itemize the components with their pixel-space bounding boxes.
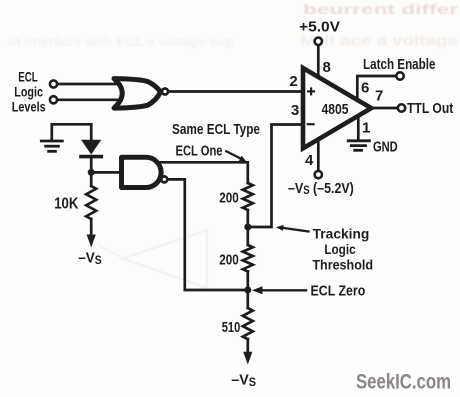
wire pin 7 output bbox=[371, 107, 398, 110]
arrow to -VS (bottom) bbox=[243, 352, 252, 365]
pointer arrow Tracking Logic Threshold bbox=[284, 228, 309, 232]
svg-text:4805: 4805 bbox=[322, 101, 349, 118]
wire ECL One (NAND true output to divider top) bbox=[158, 162, 248, 183]
svg-text:SeekIC.com: SeekIC.com bbox=[356, 371, 451, 394]
svg-text:ECL: ECL bbox=[18, 69, 38, 85]
resistor R4 510 bbox=[243, 308, 253, 339]
svg-text:510: 510 bbox=[222, 319, 241, 336]
svg-text:–VS (–5.2V): –VS (–5.2V) bbox=[288, 180, 354, 197]
svg-text:+5.0V: +5.0V bbox=[299, 20, 340, 36]
wire R3 to ECL Zero node bbox=[246, 272, 249, 309]
label Tracking Logic Threshold bbox=[312, 226, 373, 273]
wire NOR output to comparator pin 2 bbox=[169, 90, 303, 93]
input terminal IN2 bbox=[50, 96, 57, 103]
svg-text:Logic: Logic bbox=[324, 241, 355, 257]
svg-text:Tracking: Tracking bbox=[313, 226, 370, 242]
svg-text:8: 8 bbox=[323, 59, 331, 76]
svg-text:Same ECL Type: Same ECL Type bbox=[172, 122, 260, 138]
node junction (diode / 10K / gate input) bbox=[88, 169, 95, 176]
wire node to NAND input bbox=[91, 171, 120, 174]
power terminal +5.0V bbox=[315, 38, 322, 45]
ground (bias network) bbox=[41, 141, 62, 151]
svg-text:ECL One: ECL One bbox=[176, 144, 223, 160]
plus mark pin 2 bbox=[308, 89, 314, 95]
svg-text:Latch Enable: Latch Enable bbox=[363, 57, 436, 73]
node ECL Zero bbox=[244, 287, 251, 294]
svg-text:4: 4 bbox=[305, 152, 314, 169]
wire pin 3 to threshold node bbox=[251, 125, 302, 228]
svg-text:ot interface with ECL a voltag: ot interface with ECL a voltage sup bbox=[8, 34, 234, 49]
op-amp U2 4805 bbox=[303, 68, 371, 148]
wire ground to diode anode bbox=[52, 124, 91, 140]
NAND bubble bbox=[161, 176, 167, 182]
node Tracking Logic Threshold bbox=[244, 224, 251, 231]
pointer arrow ECL One bbox=[226, 151, 241, 158]
terminal -VS supply bbox=[315, 171, 322, 178]
minus mark pin 3 bbox=[308, 123, 314, 125]
wire pin 1 bbox=[357, 116, 360, 139]
resistor R2 200 bbox=[243, 183, 253, 210]
terminal TTL Out bbox=[398, 104, 405, 111]
svg-text:6: 6 bbox=[361, 80, 369, 97]
terminal Latch Enable bbox=[396, 72, 403, 79]
svg-text:1: 1 bbox=[362, 120, 370, 137]
svg-text:GND: GND bbox=[373, 139, 398, 155]
arrow to -VS bbox=[87, 235, 96, 248]
resistor R3 200 bbox=[243, 245, 253, 271]
svg-text:200: 200 bbox=[219, 253, 239, 269]
svg-text:TTL Out: TTL Out bbox=[407, 101, 453, 117]
svg-text:Threshold: Threshold bbox=[312, 257, 373, 273]
wire R2 to node bbox=[246, 210, 249, 245]
ground GND (comparator) bbox=[348, 141, 369, 151]
svg-text:10K: 10K bbox=[54, 196, 79, 213]
svg-text:7: 7 bbox=[375, 88, 383, 105]
wire pin 8 bbox=[317, 45, 320, 77]
wire bbox=[58, 83, 120, 86]
NOR gate U1 bbox=[114, 79, 161, 109]
wire R4 to -VS arrow bbox=[246, 339, 249, 354]
wire NAND inverted output to ECL Zero node bbox=[168, 179, 246, 290]
input terminal IN1 bbox=[50, 80, 57, 87]
svg-text:2: 2 bbox=[289, 73, 297, 90]
svg-text:ECL Zero: ECL Zero bbox=[311, 283, 366, 300]
label ECL Logic Levels bbox=[12, 69, 46, 115]
label -VS (-5.2V) bbox=[288, 180, 354, 197]
NAND gate U3 bbox=[122, 157, 162, 187]
wire diode cathode down bbox=[90, 158, 93, 186]
wire bbox=[58, 98, 120, 101]
NOR bubble bbox=[162, 89, 168, 95]
wire pin 4 bbox=[317, 139, 320, 171]
resistor R1 10K bbox=[86, 186, 96, 219]
svg-text:Logic: Logic bbox=[14, 84, 43, 100]
svg-text:200: 200 bbox=[219, 191, 239, 207]
wire R1 to -VS arrow bbox=[90, 219, 93, 236]
diode D1 bbox=[81, 140, 101, 155]
svg-text:3: 3 bbox=[291, 102, 299, 119]
svg-text:Levels: Levels bbox=[12, 99, 46, 115]
wire pin 6 latch enable bbox=[357, 76, 396, 100]
svg-text:beurrent differ: beurrent differ bbox=[303, 1, 459, 17]
pointer arrow ECL Zero bbox=[260, 289, 306, 291]
